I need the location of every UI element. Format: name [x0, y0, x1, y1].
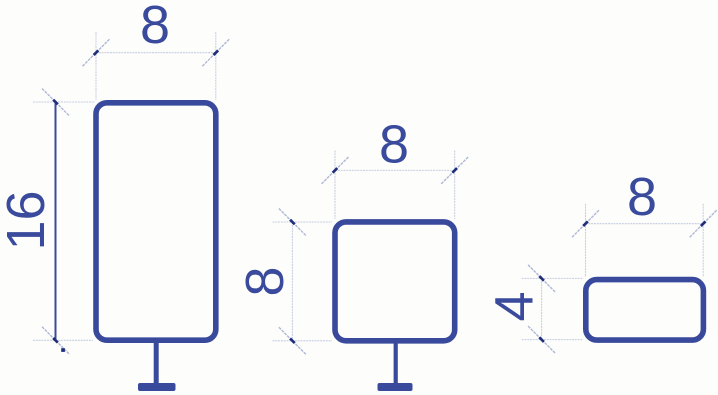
svg-text:8: 8: [140, 0, 170, 55]
shape S3 rounded rectangle 8x4: [586, 280, 704, 341]
dimension D1 width 8 above S1: [83, 0, 230, 100]
D3 extension line left: [334, 151, 336, 220]
D1 tick slash left: [83, 39, 110, 66]
foot of S2: [378, 383, 413, 391]
D4 tick mark bottom: [290, 339, 295, 344]
D4 extension line bottom: [273, 340, 333, 342]
D3 tick mark right: [452, 168, 457, 173]
D2 tick slash top: [42, 89, 69, 116]
D2 extension line top: [33, 101, 95, 103]
D3 tick slash right: [441, 157, 468, 184]
D1 tick mark left: [94, 50, 99, 55]
D4 tick slash bottom: [279, 327, 306, 354]
D3 dimension line: [335, 169, 455, 171]
D2 dimension line: [55, 102, 57, 340]
D5 tick slash left: [572, 210, 599, 237]
D4 tick mark top: [290, 220, 295, 225]
D1 tick mark right: [214, 50, 219, 55]
dimension D5 width 8 above S3: [572, 167, 717, 277]
D6 tick slash bottom: [528, 326, 555, 353]
dimension D2 height 16 left of S1: [0, 89, 95, 354]
svg-text:8: 8: [627, 167, 657, 227]
D2 tick slash bottom: [42, 327, 69, 354]
D2 tick end dot bottom: [61, 348, 65, 352]
D1 extension line left: [95, 32, 97, 100]
D6 tick mark bottom: [539, 337, 544, 342]
dimension D6 height 4 left of S3: [485, 265, 583, 353]
D5 extension line left: [585, 204, 587, 277]
D3 tick mark left: [333, 168, 338, 173]
stem of S1: [154, 341, 159, 385]
dimension D4 height 8 left of S2: [235, 209, 332, 355]
dimension D3 width 8 above S2: [322, 115, 469, 220]
svg-text:4: 4: [485, 291, 545, 321]
D6 extension line bottom: [522, 339, 583, 341]
D2 extension line bottom: [33, 339, 93, 341]
D5 tick mark right: [701, 221, 706, 226]
D1 dimension line: [96, 52, 216, 54]
stem of S2: [394, 342, 398, 385]
D6 extension line top: [522, 277, 583, 279]
D4 tick slash top: [279, 209, 306, 236]
D4 dimension line: [291, 222, 293, 341]
D1 extension line right: [215, 32, 217, 100]
D5 tick slash right: [690, 210, 717, 237]
D6 tick mark top: [539, 276, 544, 281]
D3 tick slash left: [322, 157, 349, 184]
svg-text:16: 16: [0, 190, 56, 250]
D2 tick mark bottom: [53, 338, 58, 343]
foot of S1: [138, 383, 176, 391]
D5 tick mark left: [583, 221, 588, 226]
shape S1 rounded rectangle 8x16: [96, 103, 216, 340]
D5 dimension line: [586, 223, 704, 225]
svg-text:8: 8: [235, 266, 295, 296]
D1 tick slash right: [202, 39, 229, 66]
shape S2 rounded rectangle 8x8: [335, 222, 455, 341]
D6 dimension line: [541, 278, 543, 339]
D4 extension line top: [273, 221, 333, 223]
D3 extension line right: [454, 151, 456, 220]
svg-text:8: 8: [379, 115, 409, 175]
D6 tick slash top: [528, 265, 555, 292]
D5 extension line right: [702, 204, 704, 277]
D2 tick mark top: [53, 100, 58, 105]
